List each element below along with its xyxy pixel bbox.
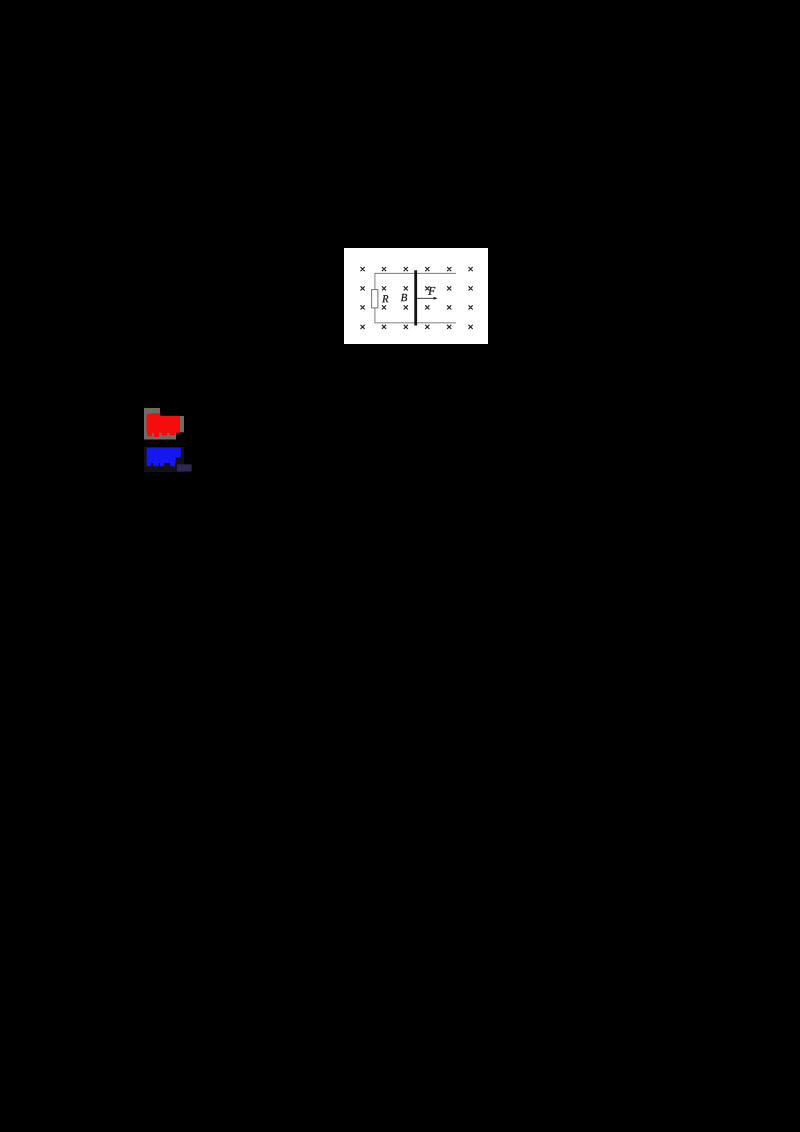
- red answer text block: [146, 413, 180, 437]
- analysis navy tail rectangle: [177, 464, 192, 471]
- wire: top rail: [375, 272, 456, 274]
- label R: [382, 295, 388, 302]
- figure panel (magnetic field region, white): [344, 248, 488, 344]
- answer badge gray background (middle block): [158, 416, 176, 440]
- wire: left vertical: [374, 273, 376, 323]
- field symbols x row 4: [361, 325, 473, 329]
- answer badge gray background (top-left block): [144, 408, 160, 440]
- blue analysis text block: [147, 448, 181, 467]
- resistor R (box): [372, 290, 378, 308]
- force arrow F: [417, 297, 438, 300]
- conducting bar (slider): [414, 270, 417, 325]
- field symbols x row 3: [361, 305, 473, 309]
- label B: [401, 294, 407, 301]
- wire: bottom rail: [375, 322, 456, 324]
- blue block right notch: [176, 458, 181, 464]
- field symbols x row 2: [361, 286, 473, 290]
- field symbols x row 1: [361, 267, 473, 271]
- answer badge gray background (right patch): [176, 416, 184, 432]
- label F: [428, 287, 435, 295]
- analysis faint backdrop: [144, 447, 184, 472]
